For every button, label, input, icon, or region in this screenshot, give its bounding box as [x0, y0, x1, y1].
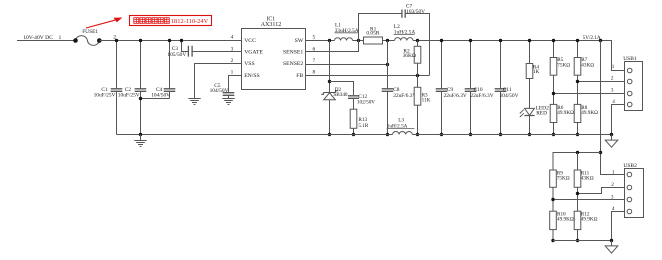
pin circle USB1-3: [627, 91, 632, 96]
junction: SENSE2/C8 column: [386, 63, 389, 66]
inductor L3: [393, 131, 413, 134]
junction: C9 top: [440, 39, 443, 42]
junction: R7/R8 to pin2: [576, 80, 579, 83]
ground (C5): [222, 99, 234, 105]
wire: C1 column: [116, 41, 118, 135]
red annotation box: [130, 16, 212, 26]
junction: USB2 feed tap: [599, 39, 602, 42]
capacitor C1: [111, 89, 123, 92]
svg-text:FUSE1: FUSE1: [82, 29, 98, 35]
wire: ground stem C2: [140, 135, 142, 141]
pin circle USB1-1: [627, 68, 632, 73]
svg-text:104/50V: 104/50V: [210, 88, 229, 94]
svg-text:USB2: USB2: [623, 163, 637, 169]
junction: R12 bottom: [576, 239, 579, 242]
junction: USB2 ground rail end: [610, 239, 613, 242]
diode D2 SB340: [321, 91, 337, 95]
svg-text:SW: SW: [295, 38, 304, 44]
junction: L1/R1/C7/SENSE1: [357, 39, 360, 42]
wire: C5 to ground: [228, 95, 230, 98]
junction: R7 top: [576, 39, 579, 42]
junction: D2 bottom: [328, 133, 331, 136]
junction: C2 top: [139, 39, 142, 42]
junction: ground rail end: [610, 133, 613, 136]
svg-text:22uF/6.3V: 22uF/6.3V: [470, 93, 493, 99]
junction: R1/L2/C8/SENSE2: [386, 39, 389, 42]
wire: input to fuse: [17, 40, 76, 42]
svg-text:49.9KΩ: 49.9KΩ: [581, 217, 598, 223]
svg-text:104/50V: 104/50V: [500, 93, 519, 99]
junction: C10 bottom: [469, 133, 472, 136]
wire: FB to R3 top: [417, 76, 419, 88]
svg-text:5V/2.1A: 5V/2.1A: [583, 35, 601, 41]
wire: USB1 pin2 line: [578, 81, 628, 83]
wire: R8 bottom: [577, 123, 579, 135]
wire: C4 column: [169, 41, 171, 99]
wire: ground rail left: [117, 134, 393, 136]
junction: R10 bottom: [551, 239, 554, 242]
wire: IC pin2 VSS to ground: [195, 64, 242, 99]
junction: C1 top: [115, 39, 118, 42]
junction: C10 top: [469, 39, 472, 42]
junction: C11 top: [499, 39, 502, 42]
capacitor C10: [465, 89, 477, 92]
wire: stem to USB2 ground: [611, 241, 613, 246]
wire: R13 to ground rail: [353, 128, 355, 134]
wire: stem to USB1 ground: [611, 135, 613, 141]
svg-text:22uF/6.3V: 22uF/6.3V: [393, 93, 416, 99]
resistor R6: [550, 104, 557, 122]
junction: R6 bottom: [552, 133, 555, 136]
resistor R13: [350, 109, 357, 128]
wire: USB1 pin4 to ground: [612, 105, 628, 135]
wire: L2 to USB1 pin1 corner: [413, 41, 627, 71]
junction: R9/R10 to pin3: [551, 198, 554, 201]
wire: USB2 pin2 line: [578, 188, 628, 194]
wire: R10 bottom: [552, 230, 554, 241]
wire: R1 to L2: [383, 40, 395, 42]
inductor L2: [395, 38, 414, 41]
IC U1 AX3112 body: [242, 29, 306, 90]
wire: R4 to LED2: [529, 79, 531, 109]
wire: R9 to R10: [552, 187, 554, 211]
svg-text:SENSE2: SENSE2: [283, 61, 303, 67]
svg-text:0.05R: 0.05R: [366, 30, 379, 36]
pin circle USB2-2: [627, 185, 632, 190]
wire: R4 top: [529, 41, 531, 64]
wire: C11 column: [500, 41, 502, 135]
svg-text:3: 3: [231, 46, 234, 52]
junction: L2 out / R2 top: [416, 39, 419, 42]
junction: FB/R2/R3: [416, 74, 419, 77]
svg-text:1: 1: [612, 64, 615, 70]
wire: D2 anode to ground rail: [329, 100, 331, 135]
resistor R9: [550, 170, 557, 187]
svg-text:FB: FB: [296, 73, 303, 79]
svg-text:VCC: VCC: [244, 38, 256, 44]
svg-text:5.1R: 5.1R: [358, 123, 368, 129]
capacitor C12: [348, 96, 359, 99]
pin circle USB2-4: [627, 209, 632, 214]
junction: R11/R12 to pin2: [576, 192, 579, 195]
wire: SW rail IC to L1: [306, 40, 335, 42]
wire: IC pin1 EN/SS to C5: [229, 76, 242, 93]
svg-text:EN/SS: EN/SS: [244, 73, 260, 79]
capacitor C11: [495, 89, 507, 92]
ground (main rail): [134, 141, 146, 147]
junction: R5/R6 to pin3: [552, 92, 555, 95]
ground (VSS): [188, 99, 200, 105]
wire: R3 bottom to ground rail: [417, 105, 419, 134]
junction: C3 top: [180, 39, 183, 42]
wire: R6 bottom: [553, 123, 555, 135]
capacitor C5: [223, 93, 235, 96]
svg-text:36KΩ: 36KΩ: [403, 53, 416, 59]
capacitor C3: [188, 46, 192, 57]
resistor R4: [526, 64, 533, 79]
svg-text:4: 4: [231, 35, 234, 41]
wire: USB2 5V rail: [553, 153, 601, 171]
pin circle USB2-3: [627, 197, 632, 202]
connector USB2 body: [625, 169, 644, 218]
wire: R7 to R8: [577, 75, 579, 104]
resistor R7: [574, 58, 581, 76]
wire: R2 bottom to FB: [417, 63, 419, 75]
svg-text:2: 2: [611, 76, 614, 82]
capacitor C4: [164, 89, 176, 92]
svg-text:43KΩ: 43KΩ: [581, 63, 594, 69]
svg-text:USB1: USB1: [623, 56, 637, 62]
resistor R5: [550, 58, 557, 76]
wire: C10 column: [470, 41, 472, 135]
resistor R10: [550, 211, 557, 229]
wire: R11 to R12: [577, 187, 579, 211]
wire: C3 to IC pin3: [192, 51, 241, 53]
wire: C7 left segment: [359, 14, 402, 41]
ground (USB1, triangle): [605, 140, 618, 147]
wire: USB2 pin3 line: [553, 199, 627, 201]
svg-text:11K: 11K: [422, 97, 431, 103]
svg-text:43KΩ: 43KΩ: [581, 175, 594, 181]
wire: R11 top: [577, 153, 579, 171]
junction: R13 bottom: [352, 133, 355, 136]
svg-text:2: 2: [611, 182, 614, 188]
fuse FUSE1: [76, 36, 100, 46]
wire: R7 top: [577, 41, 579, 58]
svg-text:7: 7: [312, 58, 315, 64]
inductor L1: [335, 38, 353, 41]
junction: R3 bottom: [416, 133, 419, 136]
wire: top rail fuse to IC pin4: [99, 40, 241, 42]
svg-text:102/50V: 102/50V: [357, 100, 375, 106]
svg-text:10uF/25V: 10uF/25V: [118, 92, 140, 98]
wire: USB2 feed vertical: [601, 41, 628, 175]
junction: R8 bottom: [576, 133, 579, 136]
junction: C4 top: [168, 39, 171, 42]
junction: C4/C2 bottom: [139, 97, 142, 100]
connector USB1 body: [625, 62, 643, 111]
svg-text:1812-110-24V: 1812-110-24V: [171, 18, 209, 25]
capacitor C8: [382, 89, 394, 92]
svg-text:1: 1: [612, 169, 615, 175]
svg-text:22uF/6.3V: 22uF/6.3V: [444, 93, 467, 99]
LED LED2: [525, 108, 535, 115]
svg-text:1: 1: [231, 70, 234, 76]
wire: C2 column: [140, 41, 142, 135]
resistor R2: [414, 46, 421, 63]
svg-text:1K: 1K: [533, 69, 540, 75]
svg-text:75KΩ: 75KΩ: [557, 63, 570, 69]
capacitor C2: [135, 89, 147, 92]
svg-text:RED: RED: [536, 111, 547, 117]
junction: R4 top: [528, 39, 531, 42]
svg-text:105/50V: 105/50V: [167, 52, 186, 58]
wire: C7 right segment to FB: [405, 14, 429, 76]
pin circle USB2-1: [627, 172, 632, 177]
wire: USB2 ground rail: [553, 240, 612, 242]
wire: C8 column: [387, 41, 389, 135]
svg-text:3: 3: [611, 194, 614, 200]
junction: R11 top: [576, 151, 579, 154]
svg-text:5: 5: [312, 35, 315, 41]
svg-text:49.9KΩ: 49.9KΩ: [581, 110, 598, 116]
wire: FB (pin8) line: [306, 75, 430, 77]
junction: LED2 bottom: [528, 133, 531, 136]
resistor R11: [574, 170, 581, 187]
svg-text:49.9KΩ: 49.9KΩ: [557, 217, 574, 223]
svg-text:104/50V: 104/50V: [151, 92, 170, 98]
wire: USB1 pin3 line: [554, 93, 628, 95]
junction: C8 bottom: [386, 133, 389, 136]
wire: SENSE1 (pin6) to R1 left: [306, 41, 359, 52]
wire: R5 top: [553, 41, 555, 58]
resistor R8: [574, 104, 581, 122]
svg-text:10uF/25V: 10uF/25V: [94, 92, 116, 98]
wire: LED2 to ground rail: [529, 116, 531, 135]
junction: snubber tap: [328, 80, 331, 83]
wire: R12 bottom: [577, 230, 579, 241]
junction: R5 top: [552, 39, 555, 42]
junction: C9 bottom: [440, 133, 443, 136]
red annotation text 自恢复保险丝1812-110-24V: [134, 18, 139, 24]
wire: L1 to R1: [353, 40, 364, 42]
ground (USB2, triangle): [605, 246, 618, 253]
svg-text:SENSE1: SENSE1: [283, 49, 303, 55]
svg-text:49.9KΩ: 49.9KΩ: [557, 110, 574, 116]
junction: SW node D2: [328, 39, 331, 42]
junction: C11 bottom: [499, 133, 502, 136]
svg-text:4: 4: [612, 206, 615, 212]
capacitor C9: [436, 89, 448, 92]
svg-text:2: 2: [231, 58, 234, 64]
wire: R2 top: [417, 41, 419, 47]
wire: snubber branch: [330, 82, 354, 96]
pin circle USB1-2: [627, 79, 632, 84]
junction: USB2 rail tap: [599, 151, 602, 154]
svg-text:8: 8: [312, 70, 315, 76]
svg-text:VGATE: VGATE: [244, 49, 263, 55]
wire: C3 branch from rail: [182, 41, 189, 52]
svg-text:AX3112: AX3112: [261, 22, 281, 28]
svg-text:3: 3: [611, 88, 614, 94]
pin circle USB1-4: [627, 102, 632, 107]
capacitor C7: [402, 10, 405, 18]
resistor R3: [414, 87, 421, 105]
red annotation arrow: [86, 19, 119, 28]
resistor R1: [364, 37, 383, 44]
svg-text:4: 4: [612, 99, 615, 105]
wire: C4 bottom to C2 column: [141, 98, 170, 100]
svg-text:VSS: VSS: [244, 61, 254, 67]
svg-text:75KΩ: 75KΩ: [557, 175, 570, 181]
resistor R12: [574, 211, 581, 229]
wire: D2 column upper: [329, 41, 331, 93]
wire: C12 to R13: [353, 98, 355, 109]
wire: USB2 pin4 to ground: [612, 212, 628, 241]
wire: ground rail right: [412, 134, 612, 136]
junction: ground rail C2: [139, 133, 142, 136]
wire: C9 column: [441, 41, 443, 135]
wire: R5 to R6: [553, 75, 555, 104]
wire: SENSE2 (pin7) to R1 right: [306, 64, 388, 66]
svg-text:SB340: SB340: [333, 92, 348, 98]
